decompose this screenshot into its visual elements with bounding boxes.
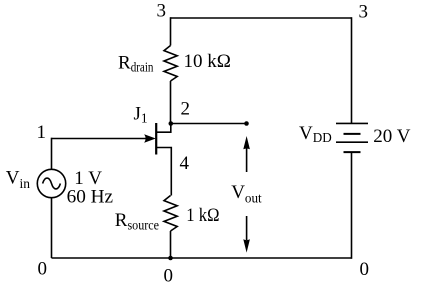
wire node 2 horizontal	[171, 123, 247, 125]
battery VDD plate long	[336, 141, 368, 143]
svg-text:60 Hz: 60 Hz	[67, 186, 114, 207]
svg-text:Vout: Vout	[231, 182, 262, 206]
junction dot node 2 at drain	[169, 121, 174, 126]
svg-text:20 V: 20 V	[373, 126, 410, 147]
transistor J1 gate arrowhead	[144, 134, 156, 142]
svg-text:0: 0	[164, 266, 174, 287]
svg-text:10 kΩ: 10 kΩ	[184, 51, 231, 72]
wire Vin bottom to ground rail	[51, 198, 53, 258]
resistor R_source	[164, 196, 177, 232]
svg-text:Vin: Vin	[6, 167, 30, 191]
svg-text:1: 1	[37, 122, 47, 143]
junction dot node 0 below R_source	[168, 256, 173, 261]
wire node 1 from corner down to Vin source	[51, 138, 53, 170]
svg-text:VDD: VDD	[299, 123, 332, 145]
wire bottom ground rail node 0	[52, 257, 352, 259]
Vout arrowhead up	[243, 136, 250, 149]
source Vin circle	[37, 169, 65, 197]
wire R_drain bottom to node 2	[170, 81, 172, 124]
resistor R_drain	[164, 46, 177, 82]
battery VDD plate short	[344, 133, 361, 135]
wire top rail node 3	[171, 17, 352, 19]
svg-text:Rdrain: Rdrain	[118, 52, 154, 74]
svg-text:4: 4	[180, 153, 190, 174]
transistor J1 channel bar	[155, 123, 157, 155]
wire from top rail down to R_drain	[170, 17, 172, 45]
transistor J1 drain lead	[157, 124, 171, 133]
junction dot node 2 right at Vout	[244, 121, 249, 126]
wire right rail from top to battery	[351, 17, 353, 123]
svg-text:J1: J1	[134, 104, 148, 126]
svg-text:0: 0	[38, 259, 48, 280]
battery VDD plate short bottom	[344, 151, 361, 153]
svg-text:2: 2	[181, 99, 191, 120]
transistor J1 gate wire from node 1	[52, 138, 151, 140]
svg-text:0: 0	[360, 259, 370, 280]
wire battery bottom to ground rail	[351, 152, 353, 259]
Vin sine wave	[43, 178, 61, 189]
Vout arrowhead down	[243, 239, 250, 252]
transistor J1 source lead	[157, 148, 171, 196]
svg-text:1 kΩ: 1 kΩ	[186, 205, 219, 226]
svg-text:Rsource: Rsource	[115, 210, 159, 232]
svg-text:3: 3	[157, 1, 167, 22]
svg-text:3: 3	[359, 2, 369, 23]
wire R_source bottom to ground rail	[170, 231, 172, 258]
battery VDD plate long top	[336, 122, 368, 124]
Vout arrow down shaft	[246, 216, 248, 240]
Vout arrow up shaft	[246, 148, 248, 172]
